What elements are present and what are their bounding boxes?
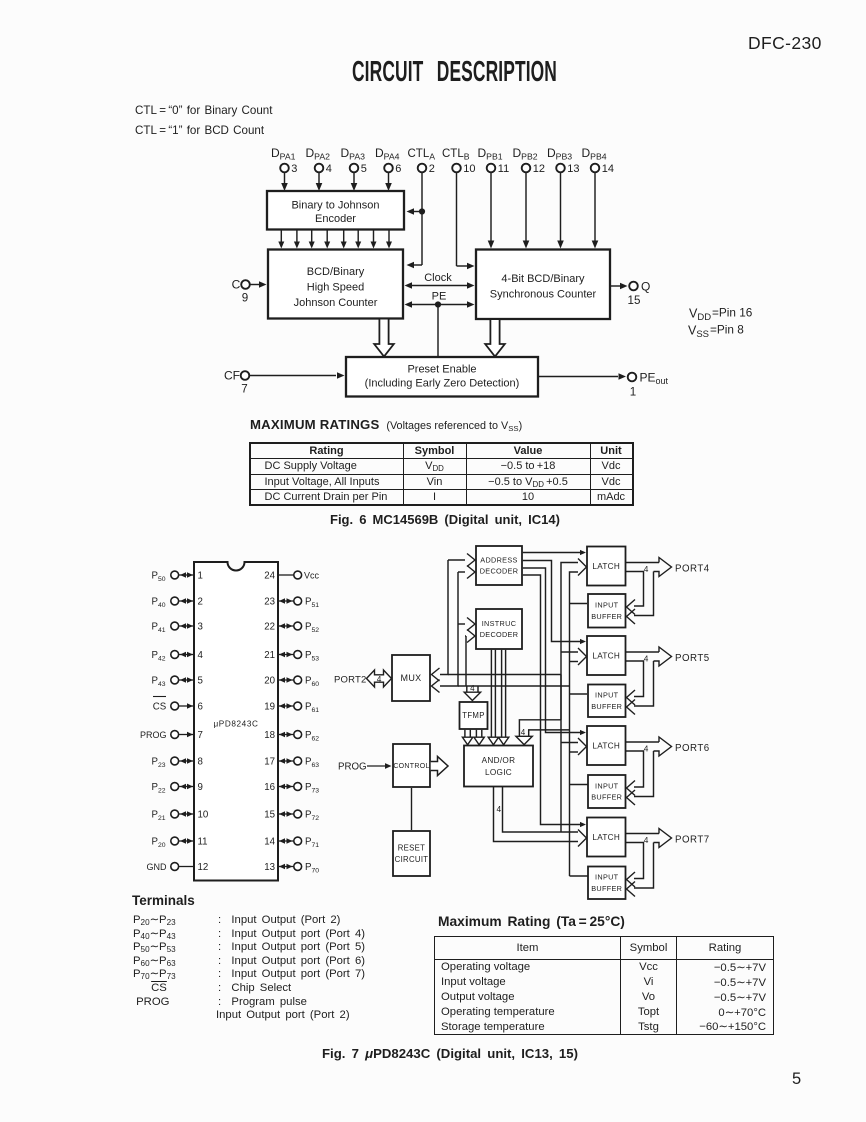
svg-text:P61: P61: [305, 701, 319, 714]
svg-text:BUFFER: BUFFER: [591, 612, 622, 621]
svg-text:11: 11: [198, 836, 208, 847]
block: INPUT BUFFER port7: [588, 867, 626, 900]
heading Maximum Rating: [438, 914, 625, 929]
heading Terminals: [132, 893, 195, 908]
svg-text:PROG: PROG: [338, 762, 367, 773]
pin CF (pin 7) input wire: [224, 369, 345, 396]
pin DPB3 terminal (pin 13): [547, 146, 580, 175]
wire: port7 line to input buffer: [627, 843, 654, 897]
page number: [792, 1070, 801, 1089]
svg-text:CIRCUIT: CIRCUIT: [395, 855, 429, 864]
pin GND (pin 12) left side: [147, 862, 209, 873]
svg-text:P23: P23: [152, 756, 166, 769]
block U1b: BCD/Binary High Speed Johnson Counter: [268, 250, 403, 319]
svg-text:P42: P42: [152, 650, 166, 663]
wire: ADDRESS DECODER to LATCH (port6): [523, 568, 586, 735]
pin P23 (pin 8) left side: [152, 756, 203, 769]
pin P52 (pin 22) right side: [264, 621, 319, 634]
svg-text:PORT4: PORT4: [675, 564, 710, 575]
svg-text:3: 3: [198, 621, 203, 632]
wire: ADDRESS DECODER to LATCH (port7): [523, 575, 586, 827]
wire: port6 line to input buffer: [627, 751, 654, 805]
wire: latch/port7 line to input buffer: [626, 843, 644, 888]
pin C (pin 9) input wire: [232, 278, 267, 305]
pin P53 (pin 21) right side: [264, 650, 319, 663]
wire: port4 line to input buffer: [627, 572, 654, 625]
wire from pin DPA2 into encoder: [316, 173, 323, 191]
pin P50 (pin 1) left side: [152, 570, 203, 583]
wire: AND/OR output (4 wide) to latch bus: [494, 787, 579, 842]
open arrow into LATCH port4: [578, 559, 587, 576]
block U1d: Preset Enable (Including Early Zero Detection): [346, 357, 538, 397]
svg-text:CS: CS: [153, 701, 167, 712]
pin DPB1 terminal (pin 11): [478, 146, 510, 175]
svg-text:2: 2: [198, 596, 203, 607]
pin Q output (pin 15): [611, 280, 650, 308]
svg-text:PORT7: PORT7: [675, 835, 710, 846]
svg-text:PROG: PROG: [140, 730, 167, 740]
svg-text:LATCH: LATCH: [592, 562, 620, 571]
block: INPUT BUFFER port5: [588, 685, 626, 718]
open arrow into LATCH port6: [578, 738, 587, 755]
svg-text:P63: P63: [305, 756, 319, 769]
block: AND/OR LOGIC: [464, 746, 533, 787]
table: maximum ratings MC14569B: [249, 442, 634, 506]
svg-text:INPUT: INPUT: [595, 781, 619, 790]
svg-text:P62: P62: [305, 730, 319, 743]
bus arrows: TFMP to AND/OR LOGIC: [462, 730, 484, 745]
pin P70 (pin 13) right side: [264, 862, 319, 875]
svg-text:4: 4: [521, 728, 526, 737]
bus arrow PORT7 output (4 wide): [626, 829, 710, 848]
svg-text:LATCH: LATCH: [592, 741, 620, 750]
block: ADDRESS DECODER: [476, 546, 522, 585]
svg-text:10: 10: [198, 809, 209, 820]
wide bus arrow: 4-bit counter to preset enable: [485, 320, 505, 357]
pin P73 (pin 16) right side: [264, 782, 319, 795]
svg-text:P72: P72: [305, 809, 319, 822]
block: RESET CIRCUIT: [393, 831, 430, 876]
IC U2: uPD8243C package outline with notch: [194, 562, 278, 881]
svg-text:15: 15: [264, 809, 275, 820]
wire bus: MUX to ADDRESS DECODER (vertical x448): [432, 554, 562, 682]
svg-text:PORT5: PORT5: [675, 653, 710, 664]
block: INSTRUC DECODER: [476, 609, 522, 649]
wire from pin DPA3 into encoder: [351, 173, 358, 191]
wire: port5 line to input buffer: [627, 661, 654, 715]
svg-text:1: 1: [198, 570, 203, 581]
bus arrow PORT6 output (4 wide): [626, 737, 710, 756]
pin P41 (pin 3) left side: [152, 621, 203, 634]
svg-text:17: 17: [264, 756, 275, 767]
svg-text:DECODER: DECODER: [480, 630, 519, 639]
wire: ADDRESS DECODER to LATCH (port5): [523, 561, 586, 645]
pin CTLB terminal (pin 10): [442, 148, 476, 175]
svg-text:P22: P22: [152, 782, 166, 795]
wire Clock (bidirectional): [405, 272, 475, 289]
svg-text:RESET: RESET: [398, 843, 426, 852]
pin P72 (pin 15) right side: [264, 809, 319, 822]
pin P22 (pin 9) left side: [152, 782, 203, 795]
pin P42 (pin 4) left side: [152, 650, 204, 663]
block: MUX: [392, 655, 430, 701]
svg-text:BUFFER: BUFFER: [591, 884, 622, 893]
svg-text:CONTROL: CONTROL: [393, 763, 429, 770]
caption figure 7: [322, 1046, 578, 1061]
svg-text:BUFFER: BUFFER: [591, 702, 622, 711]
svg-text:4: 4: [644, 835, 649, 845]
svg-text:23: 23: [264, 596, 275, 607]
svg-text:P20: P20: [152, 836, 166, 849]
bus wire: MUX bus elbow into AND/OR LOGIC with 4 label: [516, 675, 570, 745]
bus arrow PORT5 output (4 wide): [626, 647, 710, 666]
wire: ADDRESS DECODER to LATCH (port4): [523, 550, 586, 555]
wire CTLA: to encoder and johnson counter, with junction: [407, 173, 426, 269]
pin DPB4 terminal (pin 14): [582, 146, 615, 175]
svg-text:LOGIC: LOGIC: [485, 768, 512, 777]
bus arrow: MUX bus to TFMP (4 wide): [464, 684, 480, 701]
pin P60 (pin 20) right side: [264, 675, 319, 688]
svg-text:P53: P53: [305, 650, 319, 663]
pin P63 (pin 17) right side: [264, 756, 319, 769]
svg-text:P73: P73: [305, 782, 319, 795]
svg-text:18: 18: [264, 730, 275, 741]
terminals list: [133, 914, 185, 1009]
svg-text:4: 4: [470, 684, 475, 693]
wire PROG into CONTROL: [338, 762, 392, 773]
pin P61 (pin 19) right side: [264, 701, 319, 714]
svg-text:P70: P70: [305, 862, 319, 875]
wire CTLB: into 4-bit counter: [457, 173, 475, 270]
svg-text:9: 9: [198, 782, 203, 793]
svg-text:MUX: MUX: [401, 673, 422, 683]
page title: [352, 56, 557, 89]
wire latch2 lower feed: [570, 661, 579, 663]
svg-text:LATCH: LATCH: [592, 833, 620, 842]
svg-text:8: 8: [198, 756, 203, 767]
svg-text:LATCH: LATCH: [592, 651, 620, 660]
note CTL=1: [135, 124, 264, 137]
svg-text:13: 13: [264, 862, 275, 873]
pin DPB2 terminal (pin 12): [513, 146, 546, 175]
open arrow into LATCH port5: [578, 648, 587, 665]
wire from pin DPB3 into 4-bit counter: [557, 173, 564, 249]
svg-text:4: 4: [497, 804, 502, 814]
svg-text:INPUT: INPUT: [595, 873, 619, 882]
svg-text:21: 21: [264, 650, 275, 661]
wire from pin DPA1 into encoder: [281, 173, 288, 191]
svg-text:P21: P21: [152, 809, 166, 822]
heading MAXIMUM RATINGS: [250, 417, 522, 432]
block: LATCH port5: [587, 636, 626, 675]
svg-text:7: 7: [198, 730, 203, 741]
svg-text:INPUT: INPUT: [595, 601, 619, 610]
wire latch3 lower feed: [570, 751, 579, 753]
open arrow into LATCH port7: [578, 830, 587, 847]
pin Vcc (pin 24) right side: [264, 570, 319, 581]
wire: AND/OR output to vertical bus x561: [503, 787, 562, 832]
pin DPA2 terminal (pin 4): [306, 146, 332, 175]
svg-text:P60: P60: [305, 675, 319, 688]
svg-text:4: 4: [377, 674, 382, 684]
note CTL=0: [135, 104, 272, 117]
svg-text:P43: P43: [152, 675, 166, 688]
svg-text:AND/OR: AND/OR: [482, 756, 516, 765]
block: LATCH port4: [587, 547, 626, 586]
svg-text:4: 4: [644, 654, 649, 664]
block: LATCH port7: [587, 818, 626, 857]
svg-text:P41: P41: [152, 621, 166, 634]
wide bus arrow: johnson counter to preset enable: [374, 320, 394, 357]
caption figure 6: [330, 512, 560, 527]
wire from pin DPB1 into 4-bit counter: [488, 173, 495, 249]
block: INPUT BUFFER port4: [588, 594, 626, 628]
svg-text:GND: GND: [147, 862, 168, 872]
wire bus: MUX to decoders (vertical x458): [432, 566, 570, 693]
wire from pin DPB4 into 4-bit counter: [592, 173, 599, 249]
wire: latch/port4 line to input buffer: [626, 572, 644, 615]
block: INPUT BUFFER port6: [588, 775, 626, 808]
pin DPA1 terminal (pin 3): [271, 146, 297, 175]
svg-text:22: 22: [264, 621, 275, 632]
svg-text:P50: P50: [152, 570, 166, 583]
svg-text:19: 19: [264, 701, 275, 712]
pin P51 (pin 23) right side: [264, 596, 319, 609]
block: CONTROL: [393, 744, 430, 787]
pin P62 (pin 18) right side: [264, 730, 319, 743]
svg-text:14: 14: [264, 836, 275, 847]
wire from pin DPB2 into 4-bit counter: [523, 173, 530, 249]
wire from pin DPA4 into encoder: [385, 173, 392, 191]
bus arrow PORT2 (bidirectional, 4 wide) to MUX: [334, 670, 392, 687]
svg-text:6: 6: [198, 701, 203, 712]
svg-text:Vcc: Vcc: [304, 570, 320, 580]
header model number: [748, 33, 822, 54]
pin CTLA terminal (pin 2): [408, 148, 436, 175]
svg-text:5: 5: [198, 675, 203, 686]
wire: bus to INSTRUC DECODER upper: [458, 618, 475, 631]
block U1a: Binary to Johnson Encoder: [267, 191, 404, 230]
pin P40 (pin 2) left side: [152, 596, 203, 609]
svg-text:INPUT: INPUT: [595, 691, 619, 700]
block U1c: 4-Bit BCD/Binary Synchronous Counter: [476, 250, 610, 320]
svg-text:PORT2: PORT2: [334, 675, 367, 686]
wire CONTROL to RESET CIRCUIT: [411, 788, 413, 830]
svg-text:24: 24: [264, 570, 275, 581]
bus arrow PORT4 output (4 wide): [626, 558, 710, 577]
bus arrows: INSTRUC DECODER to AND/OR LOGIC: [488, 650, 509, 745]
svg-text:4: 4: [644, 564, 649, 574]
table: maximum rating uPD8243C: [434, 936, 774, 1035]
svg-text:BUFFER: BUFFER: [591, 793, 622, 802]
wire PE (bidirectional) with junction to preset enable: [405, 291, 475, 357]
pin P43 (pin 5) left side: [152, 675, 203, 688]
svg-text:4: 4: [644, 744, 649, 754]
svg-text:INSTRUC: INSTRUC: [482, 619, 517, 628]
pin P71 (pin 14) right side: [264, 836, 319, 849]
pin DPA3 terminal (pin 5): [341, 146, 367, 175]
svg-text:20: 20: [264, 675, 275, 686]
wire vertical bus x569.5 feeding buffers: [570, 572, 589, 876]
pin P20 (pin 11) left side: [152, 836, 208, 849]
pin P21 (pin 10) left side: [152, 809, 209, 822]
svg-text:P51: P51: [305, 596, 319, 609]
svg-text:4: 4: [198, 650, 204, 661]
svg-text:16: 16: [264, 782, 275, 793]
pin DPA4 terminal (pin 6): [375, 146, 401, 175]
svg-text:DECODER: DECODER: [480, 567, 519, 576]
block: LATCH port6: [587, 726, 626, 765]
wire: bus to INSTRUC DECODER lower (vertical x466): [465, 630, 475, 687]
wire: latch/port6 line to input buffer: [626, 751, 644, 796]
svg-text:P71: P71: [305, 836, 319, 849]
svg-text:PORT6: PORT6: [675, 743, 710, 754]
wire: latch/port5 line to input buffer: [626, 661, 644, 705]
pin PROG (pin 7) left side: [140, 730, 203, 741]
block: TFMP: [460, 702, 488, 729]
svg-text:ADDRESS: ADDRESS: [480, 555, 517, 564]
svg-text:P40: P40: [152, 596, 166, 609]
bus arrow: CONTROL to AND/OR LOGIC: [431, 757, 448, 776]
svg-text:P52: P52: [305, 621, 319, 634]
pin CS (pin 6) left side: [153, 697, 203, 713]
pin PE out (pin 1) output wire: [539, 371, 669, 399]
svg-text:12: 12: [198, 862, 209, 873]
wire vertical bus x561 feeding latches: [561, 563, 578, 833]
svg-text:μPD8243C: μPD8243C: [213, 720, 258, 729]
svg-text:TFMP: TFMP: [462, 711, 484, 720]
wires: 8 lines encoder to johnson counter: [278, 230, 392, 249]
